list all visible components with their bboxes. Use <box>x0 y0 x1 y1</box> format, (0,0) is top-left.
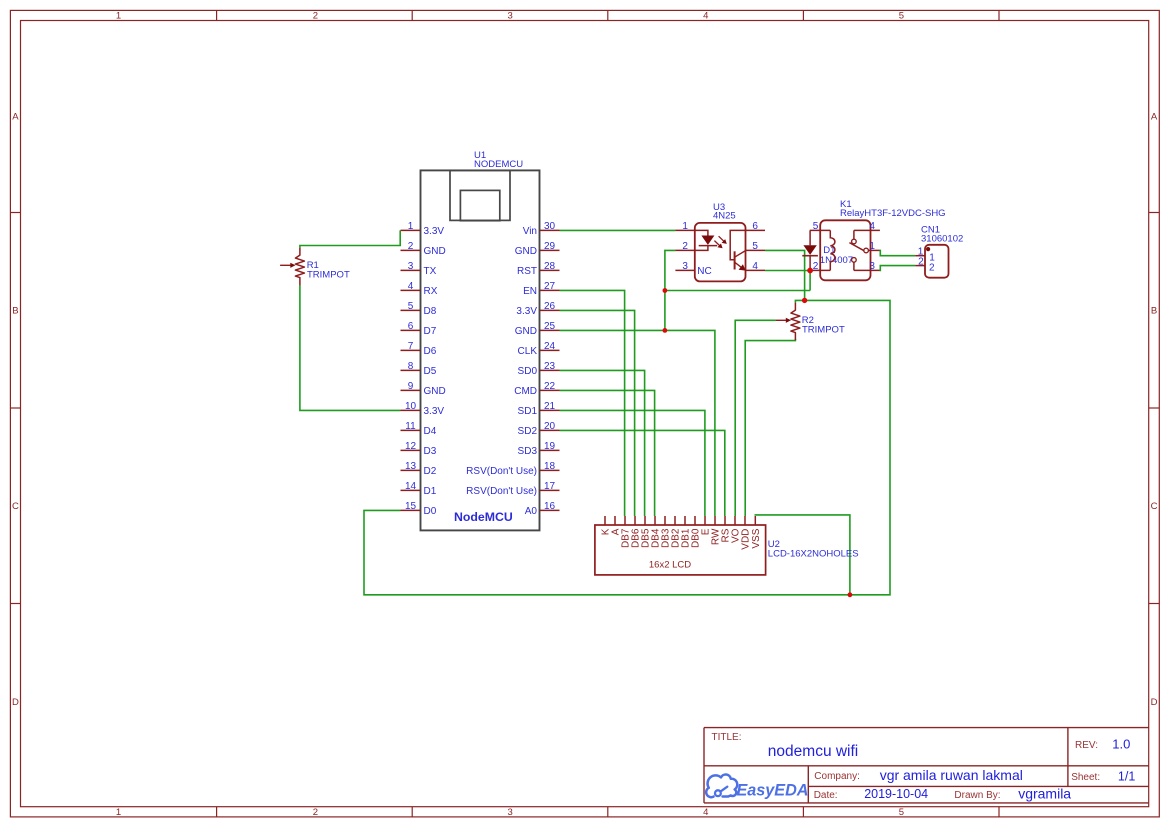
svg-text:RSV(Don't Use): RSV(Don't Use) <box>466 466 537 477</box>
svg-text:1: 1 <box>116 10 121 21</box>
svg-text:3.3V: 3.3V <box>424 406 445 417</box>
svg-text:3: 3 <box>408 261 414 272</box>
svg-text:12: 12 <box>405 441 417 452</box>
svg-text:VSS: VSS <box>751 528 762 548</box>
svg-text:28: 28 <box>544 261 556 272</box>
svg-text:2: 2 <box>408 241 414 252</box>
svg-text:NodeMCU: NodeMCU <box>454 510 513 524</box>
svg-text:A0: A0 <box>525 506 538 517</box>
svg-text:Sheet:: Sheet: <box>1071 772 1100 783</box>
svg-text:GND: GND <box>424 246 446 257</box>
svg-text:D4: D4 <box>424 426 437 437</box>
svg-text:6: 6 <box>408 321 414 332</box>
svg-text:Drawn By:: Drawn By: <box>954 790 1000 801</box>
svg-text:D: D <box>12 697 19 708</box>
svg-text:TITLE:: TITLE: <box>712 732 742 743</box>
svg-text:A: A <box>1151 111 1158 122</box>
svg-text:D1: D1 <box>424 486 437 497</box>
svg-text:Company:: Company: <box>814 771 860 782</box>
svg-text:2: 2 <box>929 262 935 273</box>
svg-text:5: 5 <box>408 301 414 312</box>
svg-text:SD3: SD3 <box>518 446 538 457</box>
svg-text:1/1: 1/1 <box>1118 769 1135 783</box>
svg-text:4: 4 <box>752 261 758 272</box>
svg-text:29: 29 <box>544 241 556 252</box>
svg-text:15: 15 <box>405 501 417 512</box>
svg-text:CLK: CLK <box>518 346 538 357</box>
svg-text:13: 13 <box>405 461 417 472</box>
svg-text:16x2 LCD: 16x2 LCD <box>649 560 691 571</box>
svg-text:2: 2 <box>813 261 819 272</box>
svg-text:1: 1 <box>682 221 688 232</box>
svg-text:SD1: SD1 <box>518 406 538 417</box>
svg-text:5: 5 <box>899 10 904 21</box>
svg-text:1N4007: 1N4007 <box>820 255 853 266</box>
svg-text:D2: D2 <box>424 466 437 477</box>
svg-text:D6: D6 <box>424 346 437 357</box>
svg-text:26: 26 <box>544 301 556 312</box>
svg-text:SD0: SD0 <box>518 366 538 377</box>
svg-text:D5: D5 <box>424 366 437 377</box>
svg-text:vgr amila ruwan lakmal: vgr amila ruwan lakmal <box>880 767 1023 783</box>
svg-text:D7: D7 <box>424 326 437 337</box>
svg-text:EN: EN <box>523 286 537 297</box>
svg-text:2: 2 <box>682 241 688 252</box>
svg-text:3: 3 <box>507 10 512 21</box>
svg-text:TX: TX <box>424 266 437 277</box>
svg-text:24: 24 <box>544 341 556 352</box>
svg-text:31060102: 31060102 <box>921 234 963 245</box>
svg-text:1: 1 <box>116 807 121 818</box>
svg-text:NODEMCU: NODEMCU <box>474 159 523 170</box>
svg-text:D8: D8 <box>424 306 437 317</box>
svg-text:2: 2 <box>313 807 318 818</box>
svg-text:1.0: 1.0 <box>1112 736 1130 751</box>
svg-text:2: 2 <box>313 10 318 21</box>
svg-text:GND: GND <box>424 386 446 397</box>
svg-text:3: 3 <box>869 261 875 272</box>
svg-text:20: 20 <box>544 421 556 432</box>
svg-text:9: 9 <box>408 381 414 392</box>
svg-text:11: 11 <box>405 421 416 432</box>
svg-text:23: 23 <box>544 361 556 372</box>
svg-text:Date:: Date: <box>814 790 838 801</box>
svg-text:RST: RST <box>517 266 537 277</box>
svg-text:3: 3 <box>682 261 688 272</box>
svg-text:4: 4 <box>408 281 414 292</box>
svg-text:1: 1 <box>869 241 875 252</box>
svg-text:B: B <box>1151 306 1157 317</box>
svg-text:NC: NC <box>697 266 711 277</box>
svg-text:TRIMPOT: TRIMPOT <box>802 324 845 335</box>
svg-text:GND: GND <box>515 246 537 257</box>
svg-text:nodemcu wifi: nodemcu wifi <box>768 743 858 760</box>
svg-text:4: 4 <box>703 10 708 21</box>
svg-text:3.3V: 3.3V <box>424 226 445 237</box>
svg-text:C: C <box>1151 501 1158 512</box>
svg-text:27: 27 <box>544 281 556 292</box>
svg-text:22: 22 <box>544 381 556 392</box>
svg-text:30: 30 <box>544 221 556 232</box>
svg-text:B: B <box>12 306 18 317</box>
svg-text:1: 1 <box>408 221 414 232</box>
svg-text:18: 18 <box>544 461 556 472</box>
svg-text:LCD-16X2NOHOLES: LCD-16X2NOHOLES <box>768 549 859 560</box>
svg-text:D3: D3 <box>424 446 437 457</box>
svg-text:14: 14 <box>405 481 417 492</box>
svg-text:6: 6 <box>752 221 758 232</box>
svg-text:C: C <box>12 501 19 512</box>
svg-text:RelayHT3F-12VDC-SHG: RelayHT3F-12VDC-SHG <box>840 208 946 219</box>
svg-text:vgramila: vgramila <box>1018 785 1071 801</box>
svg-text:5: 5 <box>899 807 904 818</box>
svg-text:17: 17 <box>544 481 556 492</box>
svg-text:21: 21 <box>544 401 556 412</box>
svg-text:25: 25 <box>544 321 556 332</box>
svg-text:A: A <box>12 111 19 122</box>
svg-text:19: 19 <box>544 441 556 452</box>
svg-text:REV:: REV: <box>1075 740 1098 751</box>
svg-text:D0: D0 <box>424 506 437 517</box>
svg-text:3.3V: 3.3V <box>516 306 537 317</box>
svg-text:5: 5 <box>752 241 758 252</box>
svg-text:TRIMPOT: TRIMPOT <box>307 270 350 281</box>
svg-text:D: D <box>1151 697 1158 708</box>
svg-text:4: 4 <box>869 221 875 232</box>
svg-text:16: 16 <box>544 501 556 512</box>
svg-text:7: 7 <box>408 341 414 352</box>
svg-text:5: 5 <box>813 221 819 232</box>
svg-text:CMD: CMD <box>514 386 537 397</box>
svg-text:4: 4 <box>703 807 708 818</box>
svg-text:EasyEDA: EasyEDA <box>737 782 809 800</box>
svg-text:8: 8 <box>408 361 414 372</box>
svg-text:Vin: Vin <box>523 226 537 237</box>
svg-text:4N25: 4N25 <box>713 211 736 222</box>
svg-text:3: 3 <box>507 807 512 818</box>
svg-text:SD2: SD2 <box>518 426 538 437</box>
svg-text:10: 10 <box>405 401 417 412</box>
svg-text:GND: GND <box>515 326 537 337</box>
svg-text:2019-10-04: 2019-10-04 <box>864 787 928 801</box>
svg-text:RX: RX <box>424 286 438 297</box>
svg-text:RSV(Don't Use): RSV(Don't Use) <box>466 486 537 497</box>
svg-text:2: 2 <box>918 256 924 267</box>
